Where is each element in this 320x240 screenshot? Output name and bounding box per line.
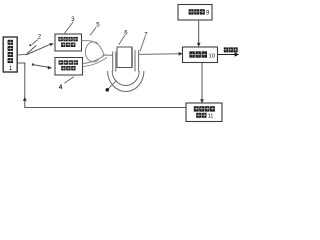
wire from source to switch <box>17 53 27 56</box>
arrow to LED2 <box>32 63 52 69</box>
control unit box 11 text <box>194 106 215 118</box>
fibers from LED2 into coupler <box>83 55 106 64</box>
label 4 with leader <box>64 77 74 84</box>
switch lever 2 <box>27 46 36 54</box>
wire coupler to U-cell <box>103 54 113 56</box>
thermometer box 9 <box>178 5 212 21</box>
U-tube cell: left arm <box>108 50 144 91</box>
source box 1 vertical text blobs <box>8 40 13 63</box>
feedback wire to source <box>17 63 186 108</box>
svg-text:11: 11 <box>208 114 214 120</box>
power source box 1 (left vertical box) <box>3 37 17 72</box>
analyzer box 10 text <box>189 51 207 57</box>
LED box 4 <box>55 58 83 76</box>
outer bend <box>108 71 144 91</box>
feedback arrowhead <box>23 97 27 101</box>
thermometer box 9 text <box>189 9 205 14</box>
LED box 3 <box>55 34 82 51</box>
wire thermometer to analyzer <box>197 20 201 47</box>
sample cell 6 (rectangle in U mouth) <box>117 47 132 68</box>
inner bend <box>112 71 139 86</box>
output text blobs <box>224 47 238 52</box>
wire analyzer to control unit <box>200 63 204 104</box>
right arm <box>134 50 136 71</box>
LED box 3 text <box>58 37 77 47</box>
output arrow with label <box>218 52 240 56</box>
label 8 with leader <box>109 81 117 89</box>
arrow to LED1 <box>26 43 54 55</box>
analyzer box 10 <box>183 47 218 63</box>
fiber from LED1 into coupler <box>82 41 104 55</box>
wire U-cell to analyzer <box>139 52 183 56</box>
coupler 5: fiber loop <box>85 42 98 62</box>
LED box 4 text <box>59 60 78 70</box>
drive control unit box 11 <box>186 103 222 122</box>
svg-text:10: 10 <box>209 54 215 60</box>
